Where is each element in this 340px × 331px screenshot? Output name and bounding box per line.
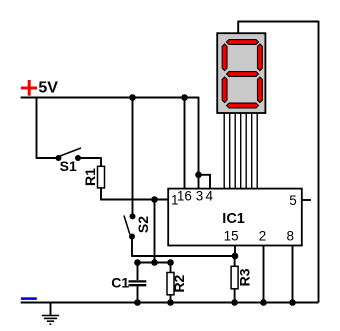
node pin8 rail junction (289, 299, 296, 306)
display segment a (227, 40, 259, 45)
display segment c (258, 77, 263, 103)
wire rail to S2 top contact (132, 98, 134, 216)
wire display pin a to IC (223, 113, 225, 189)
node C1 top (134, 259, 141, 266)
svg-text:S2: S2 (135, 216, 151, 233)
wire IC pin 8 to ground rail (292, 246, 294, 303)
node C1 rail middle junction (151, 259, 158, 266)
node pin1/C1 junction (151, 196, 158, 203)
wire rail to IC pin 16 (184, 98, 186, 190)
wire R1 bottom to IC pin 1 (100, 188, 168, 200)
node rail/S2 junction (129, 94, 136, 101)
resistor R1 (98, 166, 105, 188)
svg-text:R3: R3 (237, 268, 253, 286)
pin 5 stub wire (302, 199, 311, 201)
capacitor C1 (129, 263, 147, 303)
node pin15/R3 junction (232, 253, 239, 260)
display segment b (258, 44, 263, 71)
IC U1 body (168, 189, 302, 246)
svg-text:2: 2 (259, 229, 267, 244)
wire 5V rail (21, 97, 199, 99)
wire junction down to R3 (234, 256, 236, 267)
wire R3 bottom to ground rail (234, 289, 236, 303)
svg-text:3: 3 (196, 189, 204, 204)
resistor R3 (231, 266, 238, 289)
svg-text:R1: R1 (82, 168, 98, 186)
node R2 bottom (167, 299, 174, 306)
node pin3/pin4 junction (195, 172, 202, 179)
svg-text:15: 15 (224, 229, 239, 244)
0V blue terminal bar (21, 297, 37, 300)
wire IC pin 2 to ground rail (263, 246, 265, 303)
display segment e (222, 77, 227, 103)
svg-text:8: 8 (287, 229, 295, 244)
node R3 bottom (231, 299, 238, 306)
wire display pin b to IC (229, 113, 231, 189)
svg-text:16: 16 (177, 189, 192, 204)
node R2 top (167, 259, 174, 266)
wire display common pin to right side rail (237, 21, 318, 303)
7-segment display DIS1 body (217, 33, 265, 113)
wire display pin e to IC (245, 113, 247, 189)
svg-text:5V: 5V (38, 80, 58, 97)
node pin2 rail junction (260, 299, 267, 306)
wire display pin g to IC (256, 113, 258, 189)
svg-text:IC1: IC1 (222, 211, 245, 227)
wire display pin d to IC (240, 113, 242, 189)
switch S2 (124, 213, 136, 239)
5V supply plus terminal (21, 80, 37, 96)
svg-text:R2: R2 (171, 274, 187, 292)
display segment g (227, 72, 259, 77)
switch S1 (56, 148, 82, 161)
resistor R2 (167, 263, 174, 303)
wire display pin f to IC (251, 113, 253, 189)
wire S1 to R1 top (81, 157, 102, 166)
svg-text:C1: C1 (111, 275, 129, 291)
wire junction up to IC pin 15 (234, 246, 236, 257)
wire rail end down to IC pin 3 (198, 97, 200, 189)
node C1 bottom (134, 299, 141, 306)
svg-text:5: 5 (289, 193, 297, 208)
node rail/pin16 junction (181, 94, 188, 101)
display segment f (222, 44, 227, 71)
wire junction down to C1 rail (154, 200, 156, 263)
wire display pin c to IC (234, 113, 236, 189)
svg-text:S1: S1 (60, 158, 77, 174)
wire C1/R2 top rail (138, 262, 171, 264)
wire rail to S1 left contact (36, 97, 56, 158)
wire junction to IC pin 4 (199, 175, 211, 189)
ground symbol (42, 303, 59, 325)
display segment d (227, 103, 259, 108)
wire S2 bottom to pin 15 (131, 237, 235, 257)
wire ground rail (21, 302, 319, 304)
svg-text:4: 4 (206, 189, 214, 204)
